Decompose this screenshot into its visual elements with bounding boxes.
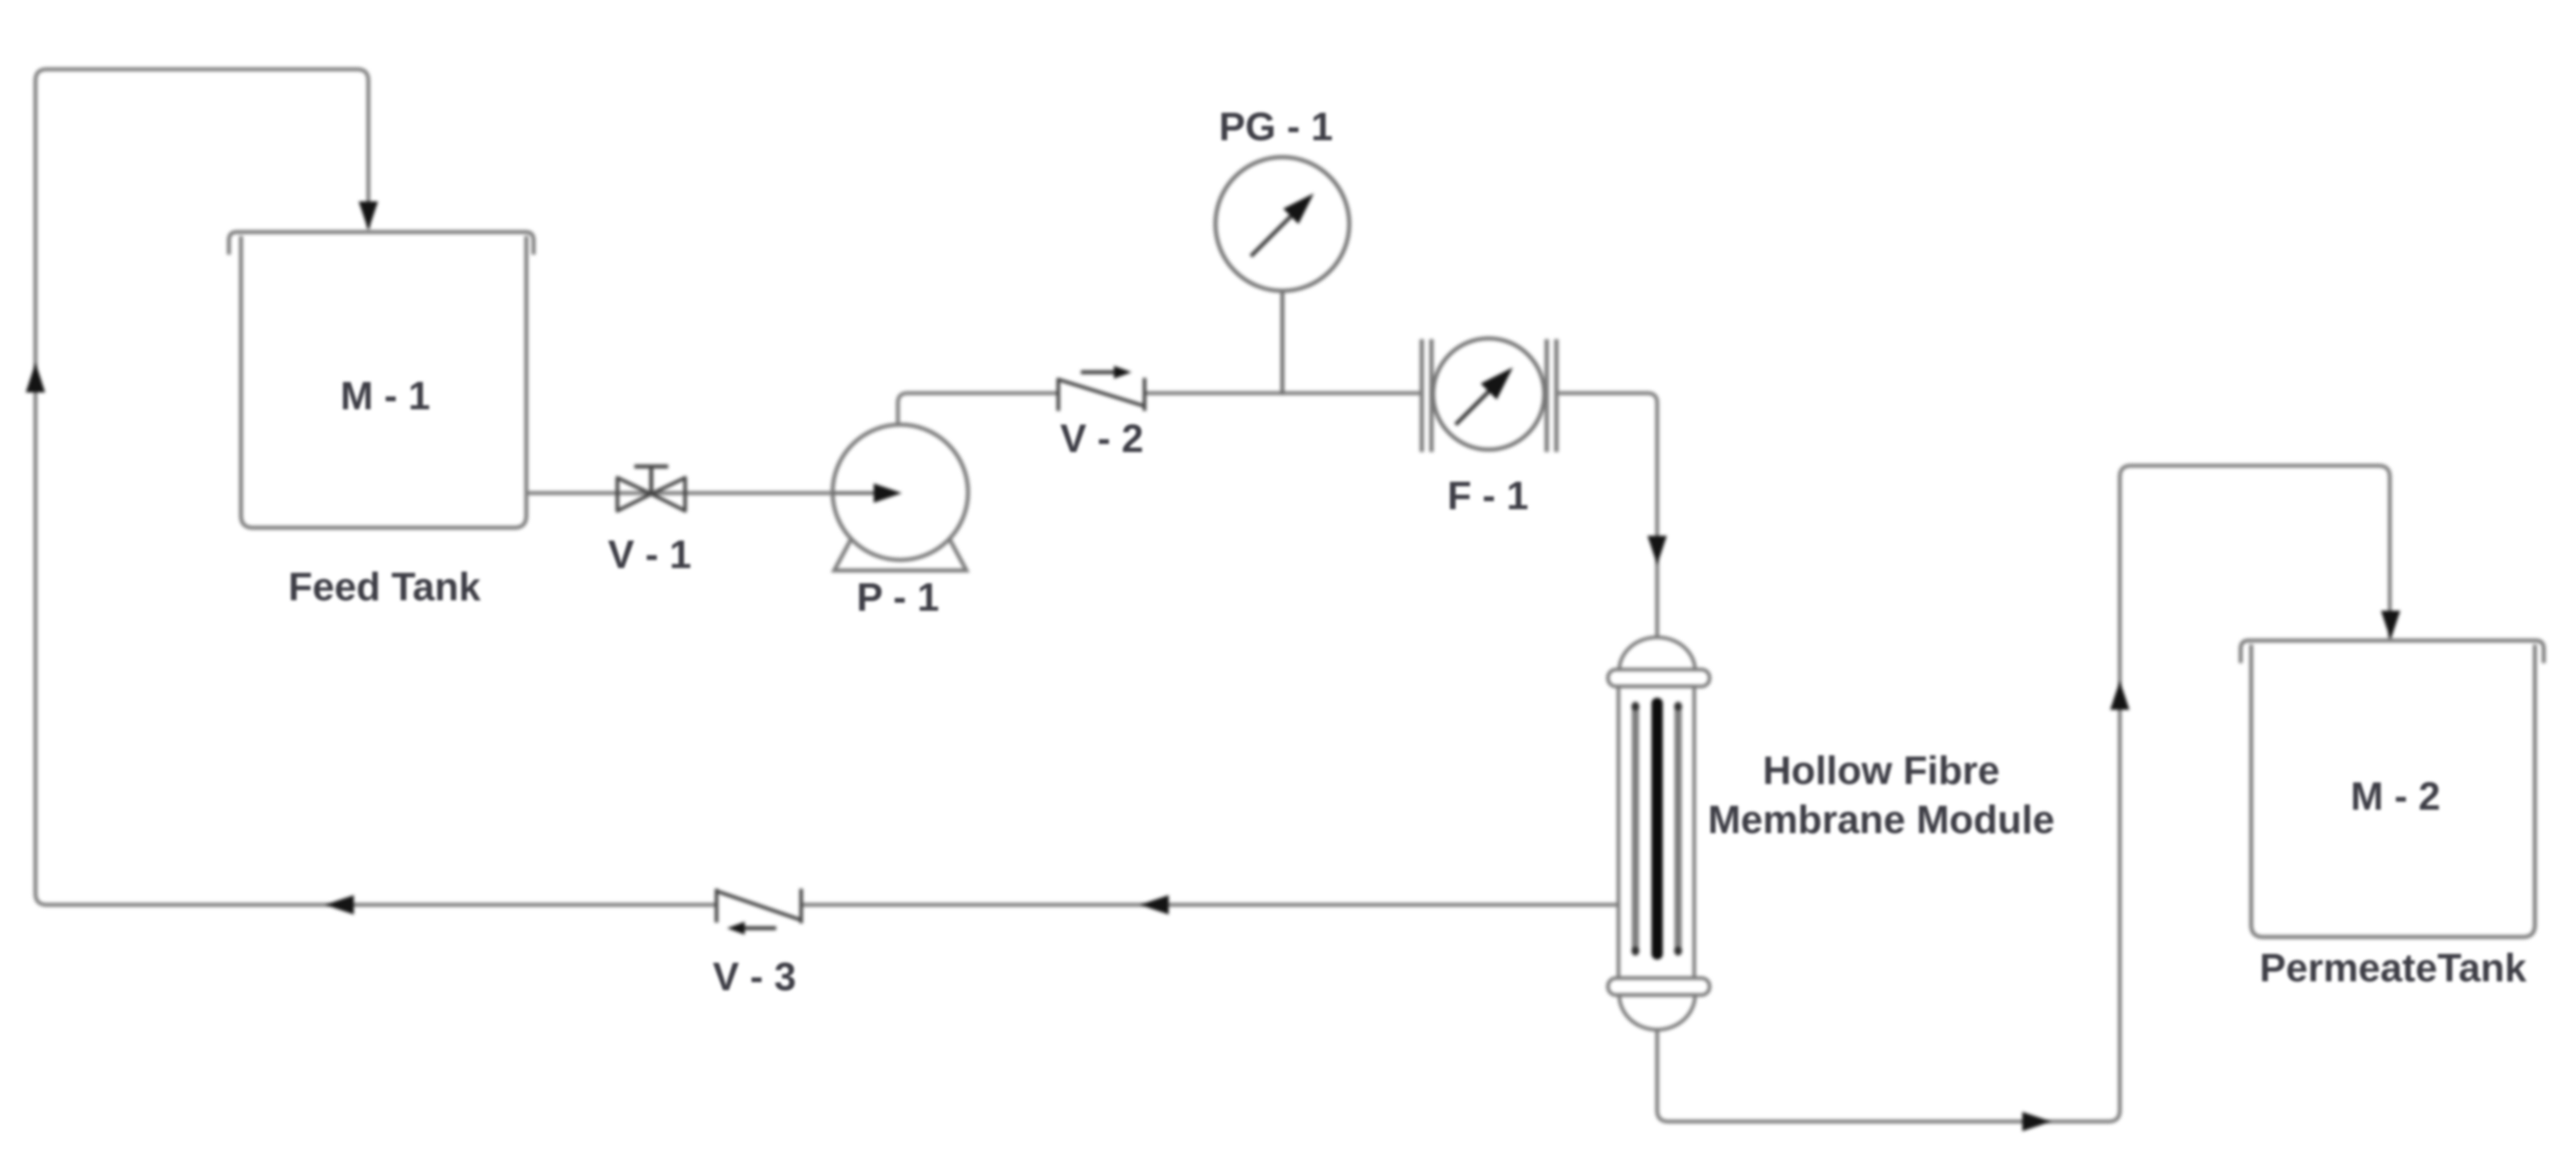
svg-text:Hollow Fibre: Hollow Fibre bbox=[1763, 749, 2000, 793]
valve V-1 stem and handle bbox=[634, 466, 668, 493]
wire V-2 to F-1 bbox=[1145, 392, 1422, 396]
valve V-3 gate diagonal bbox=[717, 891, 801, 920]
wire F-1 to membrane module top bbox=[1556, 393, 1657, 641]
flow meter F-1 dial circle bbox=[1433, 338, 1544, 450]
tank M-1 rim bbox=[229, 232, 534, 255]
membrane module bottom flange bbox=[1608, 978, 1710, 995]
svg-text:PermeateTank: PermeateTank bbox=[2259, 947, 2527, 990]
svg-text:PG - 1: PG - 1 bbox=[1219, 106, 1333, 149]
arrow left on return line toward feed loop bbox=[325, 895, 354, 914]
arrow down into membrane module bbox=[1647, 536, 1667, 565]
valve V-2 right seat bbox=[1143, 378, 1147, 411]
flow meter F-1 needle bbox=[1456, 390, 1490, 425]
membrane module fibre centre bbox=[1652, 703, 1663, 954]
valve V-2 flow dash and arrow bbox=[1081, 371, 1116, 375]
svg-text:V - 1: V - 1 bbox=[608, 533, 691, 577]
valve V-3 flow dash and arrow bbox=[742, 927, 776, 931]
svg-text:P - 1: P - 1 bbox=[857, 576, 940, 620]
svg-text:M - 2: M - 2 bbox=[2350, 775, 2441, 819]
wire recycle-return left + left riser + top run + drop into feed tank bbox=[35, 69, 717, 905]
pump P-1 casing circle bbox=[833, 425, 968, 560]
svg-text:V - 2: V - 2 bbox=[1060, 417, 1143, 461]
arrow down into permeate tank bbox=[2381, 611, 2400, 640]
arrow right into pump center bbox=[874, 483, 902, 503]
arrow up on right permeate riser bbox=[2110, 681, 2129, 710]
svg-text:Membrane Module: Membrane Module bbox=[1708, 798, 2055, 842]
valve V-2 gate diagonal bbox=[1058, 379, 1145, 406]
svg-text:M - 1: M - 1 bbox=[340, 375, 430, 418]
arrow right on bottom permeate run bbox=[2022, 1112, 2051, 1131]
gauge PG-1 needle bbox=[1251, 216, 1291, 256]
membrane module top flange bbox=[1608, 670, 1710, 686]
wire feed tank outlet to pump center bbox=[526, 491, 900, 495]
wire pump outlet to V-2 bbox=[898, 393, 1058, 425]
pump P-1 inlet line inside casing bbox=[833, 491, 874, 495]
membrane module bottom dome bbox=[1619, 995, 1695, 1030]
valve V-1 bowtie bbox=[617, 478, 651, 511]
valve V-2 left seat bbox=[1057, 378, 1061, 411]
membrane module shell body bbox=[1618, 686, 1694, 978]
gauge PG-1 dial circle bbox=[1215, 157, 1349, 291]
valve V-3 right seat bbox=[800, 889, 804, 923]
svg-text:Feed Tank: Feed Tank bbox=[289, 566, 481, 609]
membrane module fibre right bbox=[1675, 705, 1682, 952]
tank M-2 rim bbox=[2241, 641, 2544, 663]
valve V-3 left seat bbox=[715, 889, 719, 923]
wire PG-1 stem bbox=[1281, 290, 1285, 395]
svg-text:V - 3: V - 3 bbox=[713, 956, 796, 999]
arrow left on return line toward V-3 bbox=[1140, 895, 1169, 914]
tank M-1 body bbox=[241, 236, 526, 528]
svg-text:F - 1: F - 1 bbox=[1448, 475, 1529, 518]
flow meter F-1 left flange bbox=[1422, 339, 1431, 452]
arrow down into feed tank bbox=[359, 201, 378, 230]
pump P-1 stand bbox=[834, 529, 966, 570]
membrane module top dome bbox=[1619, 637, 1695, 670]
arrow up on left riser bbox=[26, 363, 45, 392]
tank M-2 body bbox=[2251, 645, 2535, 937]
membrane module fibre left bbox=[1632, 705, 1639, 952]
wire module bottom to permeate tank (down, right, up, right, down) bbox=[1657, 466, 2390, 1122]
flow meter F-1 right flange bbox=[1547, 339, 1556, 452]
wire recycle-return bottom (module to V-3 right) bbox=[801, 903, 1618, 907]
